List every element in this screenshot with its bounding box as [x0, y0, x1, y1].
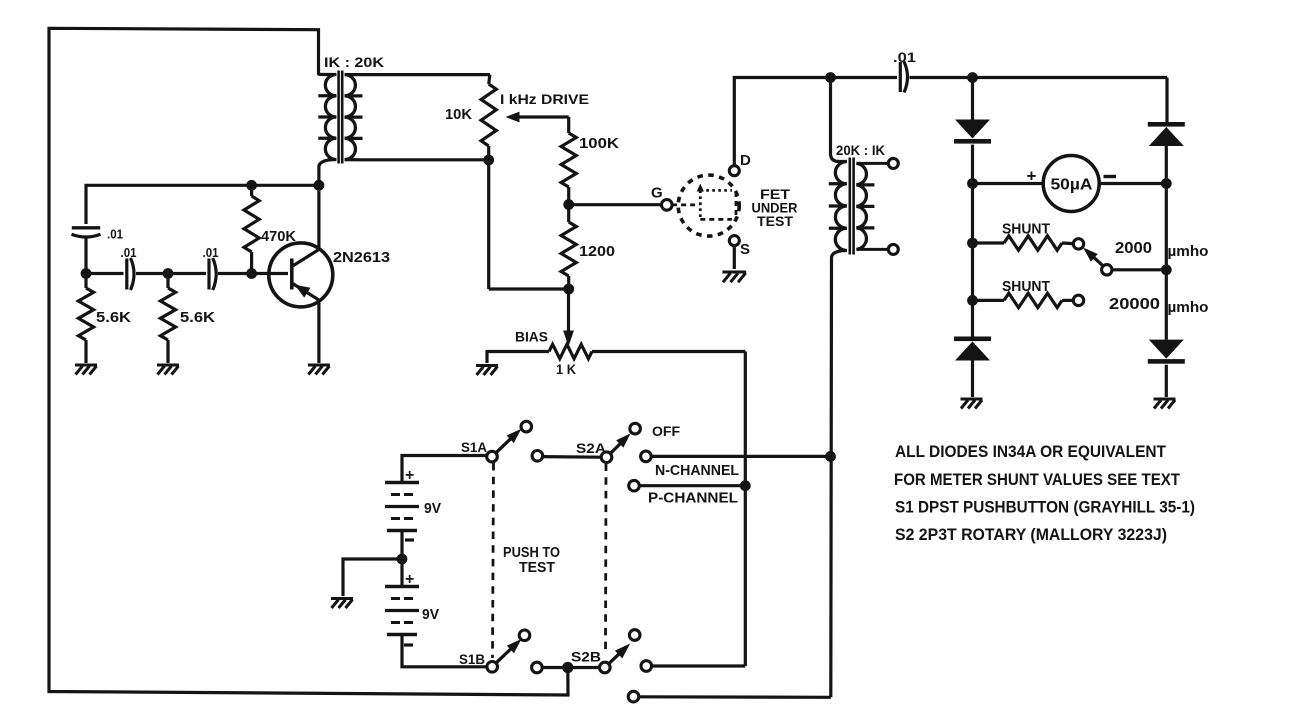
svg-text:D: D: [740, 152, 751, 169]
svg-text:P-CHANNEL: P-CHANNEL: [648, 491, 738, 507]
node: meter + junction: [967, 178, 978, 189]
node: 470K top on rail: [246, 180, 257, 191]
FET gate dashed lead: [672, 203, 699, 206]
wire S2B common to pole: [542, 666, 599, 669]
transistor Q1 2N2613 body circle: [269, 243, 333, 307]
transformer T2 20K:IK primary winding: [831, 78, 847, 162]
FET gate arrow tick: [697, 184, 704, 192]
node: bottom return rail joins S2B common wire: [562, 662, 573, 673]
ground at 5.6K no.2: [157, 364, 179, 367]
transformer T1 IK:20K secondary winding: [345, 75, 356, 160]
wire range switch to right branch: [1112, 268, 1166, 271]
Q1 base bar: [290, 259, 294, 290]
terminal P-CHANNEL (open circle): [629, 480, 640, 491]
wire BIAS pot left end to ground: [485, 350, 488, 363]
svg-text:IK : 20K: IK : 20K: [324, 54, 384, 70]
node: T1 secondary bottom joins 10K pot: [483, 155, 494, 166]
svg-text:N-CHANNEL: N-CHANNEL: [655, 463, 739, 479]
wire D2 to ground: [971, 361, 974, 398]
resistor 5.6K no.2: [166, 274, 169, 289]
node: rail joins collector riser: [314, 180, 325, 191]
potentiometer 10K (vertical resistor): [489, 75, 490, 84]
terminal range switch pole (open circle): [1102, 265, 1112, 275]
svg-text:1 K: 1 K: [556, 361, 576, 377]
wire rectifier left branch upper: [971, 78, 974, 121]
node: 100K / 1200 / gate wire junction: [563, 199, 574, 210]
svg-text:20K : IK: 20K : IK: [836, 143, 885, 158]
node: rectifier left branch on rail: [967, 72, 978, 83]
resistor 100K: [567, 117, 570, 133]
wire battery bottom to S1B: [402, 635, 487, 667]
ground at BIAS pot: [476, 364, 498, 367]
wire D4 to ground: [1165, 365, 1168, 397]
Q1 collector lead: [292, 185, 319, 266]
resistor 5.6K no.1: [84, 274, 87, 289]
svg-text:SHUNT: SHUNT: [1002, 279, 1050, 295]
wire to FET gate: [569, 203, 664, 206]
node: N-CHANNEL joins T2 primary return: [825, 451, 836, 462]
node: 1200 bottom / pot return junction: [563, 284, 574, 295]
svg-text:470K: 470K: [261, 228, 296, 245]
svg-text:5.6K: 5.6K: [180, 309, 215, 326]
terminal D (open circle): [729, 166, 739, 176]
diode D1 (left top, pointing down): [955, 120, 990, 139]
wire S2A feed to pole: [543, 455, 602, 459]
switch S2A feed contact (open circle): [532, 451, 543, 462]
switch S2B blade with arrow: [609, 648, 626, 664]
svg-text:OFF: OFF: [652, 423, 680, 439]
node: P-CHANNEL joins bias return: [740, 480, 751, 491]
wire shunt2 node to D2: [971, 300, 974, 336]
capacitor C2 .01 (series): [125, 259, 128, 290]
meter M1 50uA body: [1043, 156, 1099, 212]
wire N-CHANNEL to right riser: [651, 455, 830, 458]
wire meter node to shunt node: [971, 184, 974, 244]
svg-text:I kHz DRIVE: I kHz DRIVE: [500, 91, 589, 107]
svg-text:9V: 9V: [424, 501, 441, 517]
svg-text:G: G: [651, 185, 663, 202]
node: C1 / 5.6K no.1 / coupling chain: [81, 268, 92, 279]
switch S2B throw OFF (open circle): [629, 630, 640, 641]
switch S1A pole (open circle): [487, 451, 498, 462]
ground at left rectifier branch: [961, 398, 983, 401]
wire rectifier right branch upper: [1165, 78, 1168, 123]
wire right branch middle: [1165, 184, 1168, 270]
svg-text:S1 DPST PUSHBUTTON (GRAYHI: S1 DPST PUSHBUTTON (GRAYHILL 35-1): [895, 499, 1195, 517]
svg-text:S: S: [740, 241, 750, 258]
node: range switch junction: [1161, 264, 1172, 275]
svg-text:SHUNT: SHUNT: [1002, 222, 1050, 238]
node: shunt no.2 junction: [967, 295, 978, 306]
svg-text:S1B: S1B: [459, 652, 485, 667]
wire D1 to meter node: [971, 145, 974, 184]
terminal T2 secondary bottom (open circle): [888, 244, 898, 254]
svg-text:S2A: S2A: [576, 441, 606, 456]
wiper arm of 10K pot with arrow: [517, 115, 569, 118]
switch S2B pole (open circle): [600, 662, 611, 673]
wire battery top to S1A: [402, 456, 487, 483]
transformer T2 20K:IK secondary winding: [856, 163, 866, 249]
svg-text:TEST: TEST: [519, 560, 555, 576]
battery B2 9V: [385, 585, 419, 589]
switch S2A blade with arrow: [610, 438, 626, 454]
svg-text:TEST: TEST: [757, 213, 793, 229]
svg-text:BIAS: BIAS: [515, 329, 548, 345]
switch S1A throw (open circle): [521, 421, 532, 432]
svg-text:2N2613: 2N2613: [333, 249, 390, 266]
switch S1B pole (open circle): [487, 662, 498, 673]
node: drain rail / T2 primary / coupling cap junction: [825, 72, 836, 83]
svg-text:.01: .01: [893, 49, 916, 65]
transformer T1 core: [337, 71, 340, 164]
capacitor C3 .01 (series): [207, 259, 210, 290]
node: shunt no.1 junction: [967, 238, 978, 249]
switch S1B blade with arrow: [496, 642, 518, 663]
range switch blade with arrow: [1086, 250, 1104, 266]
svg-text:+: +: [1027, 167, 1037, 186]
wire drain riser to top rail: [734, 78, 828, 166]
svg-text:µmho: µmho: [1168, 244, 1209, 260]
wire T2 primary return to S2B P-contact: [639, 695, 831, 699]
switch S2B common contact (open circle): [532, 662, 543, 673]
potentiometer BIAS 1K (horizontal resistor): [487, 350, 549, 353]
resistor SHUNT no.1: [973, 241, 1005, 244]
terminal N-CHANNEL (open circle): [641, 451, 652, 462]
wire BIAS pot right end down to S2B N-contact: [744, 352, 747, 667]
wiper arrow into BIAS pot: [567, 289, 570, 332]
terminal S2B P-contact (open circle): [628, 691, 639, 702]
svg-text:1200: 1200: [579, 243, 615, 260]
wire meter + lead: [973, 182, 1044, 185]
diode D2 (left bottom, pointing up): [954, 337, 991, 342]
wire shunt node to shunt2 node: [971, 243, 974, 300]
transformer T1 IK:20K primary winding: [325, 75, 336, 160]
switch S2A pole (open circle): [601, 452, 612, 463]
wire coupling chain segment 1: [86, 272, 124, 275]
svg-text:9V: 9V: [422, 607, 439, 623]
wire top rail from T2 node to coupling cap: [831, 76, 898, 79]
label battery 2 minus: [404, 643, 413, 646]
diode D4 (right bottom, pointing down): [1149, 340, 1184, 359]
svg-text:10K: 10K: [445, 106, 472, 123]
svg-text:5.6K: 5.6K: [96, 309, 131, 326]
terminal shunt no.1 (open circle): [1073, 239, 1083, 249]
svg-text:PUSH TO: PUSH TO: [503, 545, 560, 561]
battery B1 9V: [385, 481, 419, 485]
ground at right rectifier branch: [1154, 398, 1176, 401]
node: C3 / 470K bottom / base junction: [246, 268, 257, 279]
label meter minus: [1104, 175, 1117, 178]
capacitor C1 .01 (vertical): [72, 226, 100, 229]
svg-text:50µA: 50µA: [1051, 177, 1093, 194]
terminal shunt no.2 (open circle): [1073, 295, 1083, 305]
FET dotted channel square: [699, 190, 702, 219]
capacitor C4 .01 (coupling): [899, 62, 902, 92]
svg-text:.01: .01: [107, 227, 123, 242]
wire source to ground: [733, 246, 736, 270]
svg-text:ALL DIODES IN34A OR EQUIVA: ALL DIODES IN34A OR EQUIVALENT: [895, 443, 1166, 461]
svg-text:.01: .01: [203, 245, 219, 260]
svg-text:µmho: µmho: [1168, 300, 1209, 316]
Q1 emitter lead with arrow: [292, 283, 319, 363]
dashed link S1A-S1B: [493, 463, 494, 658]
dashed link S2A-S2B: [604, 464, 607, 653]
svg-text:FOR METER SHUNT VALUES SEE: FOR METER SHUNT VALUES SEE TEXT: [894, 471, 1180, 489]
svg-text:S1A: S1A: [461, 440, 487, 455]
terminal T2 secondary top (open circle): [888, 158, 898, 168]
wire oscillator top rail: [86, 185, 319, 224]
wire coupling chain segment 2: [168, 272, 206, 275]
svg-text:100K: 100K: [579, 135, 619, 152]
svg-text:2000: 2000: [1115, 240, 1152, 257]
switch S1A blade with arrow: [496, 432, 518, 453]
ground at 5.6K no.1: [75, 364, 97, 367]
wire top-left power loop (top and left sides, bottom return rail): [49, 28, 568, 695]
svg-text:.01: .01: [121, 245, 137, 260]
terminal G (open circle): [662, 200, 673, 211]
wire P-CHANNEL to bias return: [639, 484, 745, 487]
diode D3 (right top, pointing up): [1148, 122, 1185, 127]
label battery 1 minus: [405, 538, 414, 541]
wire right branch lower: [1165, 270, 1168, 340]
resistor 470K: [250, 185, 253, 196]
svg-text:S2 2P3T ROTARY (MALLORY 3: S2 2P3T ROTARY (MALLORY 3223J): [895, 526, 1167, 544]
FET under test: dashed socket circle: [678, 175, 739, 236]
node: C2 / 5.6K no.2 junction: [163, 268, 174, 279]
ground at battery midpoint: [331, 597, 353, 600]
terminal S (open circle): [729, 236, 739, 246]
wire D3 to meter node: [1165, 146, 1168, 184]
svg-text:20000: 20000: [1109, 296, 1160, 313]
switch S2A throw OFF (open circle): [630, 423, 641, 434]
node: battery midpoint: [397, 554, 408, 565]
svg-text:S2B: S2B: [571, 650, 601, 665]
wire battery midpoint to ground: [343, 559, 402, 596]
ground at FET source: [722, 271, 746, 274]
ground at Q1 emitter: [308, 364, 330, 367]
resistor 1200: [567, 205, 570, 223]
terminal S2B N-contact (open circle): [641, 661, 652, 672]
switch S1B throw (open circle): [519, 630, 530, 641]
resistor SHUNT no.2: [973, 299, 1005, 302]
node: meter - junction: [1161, 178, 1172, 189]
transformer T2 core: [848, 158, 851, 255]
wire meter - lead: [1100, 182, 1167, 185]
